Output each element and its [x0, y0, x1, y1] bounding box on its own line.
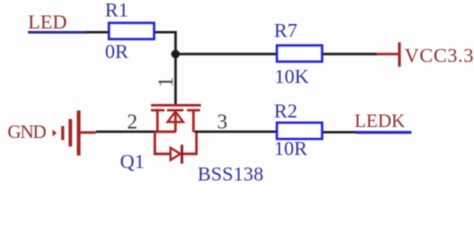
svg-text:10K: 10K [275, 66, 310, 88]
wire junction to R7 [176, 53, 277, 56]
svg-text:Q1: Q1 [120, 151, 144, 173]
resistor R2 [277, 123, 322, 139]
ground red stub wire [80, 131, 96, 134]
svg-text:VCC3.3: VCC3.3 [405, 45, 474, 67]
resistor R1 [109, 23, 154, 39]
ground bar small [61, 126, 64, 140]
ground symbol arrow tick [53, 130, 57, 137]
svg-text:R2: R2 [274, 101, 297, 123]
svg-text:10R: 10R [274, 138, 308, 160]
Q1 body-diode box bottom right [183, 153, 198, 156]
Q1 body diode triangle [171, 148, 181, 160]
wire R1 right to corner [155, 31, 177, 33]
resistor R7 [277, 46, 322, 62]
junction dot [171, 50, 180, 59]
wire VCC red stub [377, 53, 399, 56]
svg-text:R1: R1 [105, 0, 128, 22]
transistor Q1 body: top channel bar [151, 104, 201, 107]
svg-text:LED: LED [28, 12, 67, 34]
Q1 gate dash left [151, 109, 165, 111]
svg-text:0R: 0R [105, 41, 129, 63]
wire GND to gate pin 2 [96, 131, 157, 133]
svg-text:BSS138: BSS138 [198, 164, 264, 186]
svg-text:LEDK: LEDK [355, 111, 406, 132]
wire corner down to junction and transistor drain [174, 31, 177, 105]
wire R7 right pin [323, 53, 377, 56]
svg-text:3: 3 [217, 110, 228, 134]
Q1 body-diode box left side [154, 132, 157, 155]
wire LEDK blue segment [356, 131, 412, 134]
wire R1 left pin [86, 31, 108, 33]
Q1 right vertical [192, 111, 195, 132]
Q1 source rail [156, 130, 176, 133]
Q1 left vertical (gate plate drop) [156, 111, 159, 132]
Q1 gate dash right [187, 109, 200, 111]
wire R2 right pin [323, 131, 357, 133]
Q1 body-diode box bottom left [154, 153, 171, 156]
svg-text:GND: GND [8, 122, 47, 143]
Q1 body arrow triangle [168, 112, 184, 123]
ground bar tall [77, 111, 81, 156]
wire source pin 3 to R2 [195, 131, 278, 133]
ground bar medium [69, 119, 73, 147]
power bar VCC3.3 [398, 42, 401, 67]
wire LED navy segment [28, 31, 87, 34]
Q1 body arrow vertical [174, 112, 177, 132]
Q1 body diode cathode bar [181, 145, 184, 164]
svg-text:2: 2 [127, 110, 138, 134]
svg-text:R7: R7 [274, 20, 297, 42]
Q1 gate dash middle [167, 109, 184, 111]
Q1 body-diode box right side [195, 132, 198, 156]
svg-text:1: 1 [153, 77, 177, 88]
